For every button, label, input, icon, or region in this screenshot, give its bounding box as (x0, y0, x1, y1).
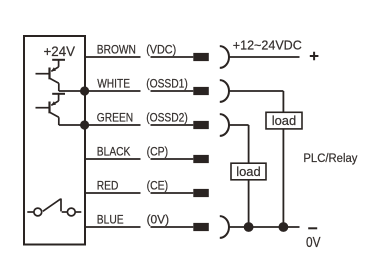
svg-text:(VDC): (VDC) (146, 43, 176, 57)
svg-text:RED: RED (97, 179, 119, 193)
svg-text:PLC/Relay: PLC/Relay (303, 151, 358, 165)
svg-text:BROWN: BROWN (97, 43, 136, 57)
svg-text:(0V): (0V) (147, 213, 170, 227)
svg-text:GREEN: GREEN (97, 111, 133, 125)
svg-text:load: load (236, 164, 261, 179)
svg-text:(CP): (CP) (147, 145, 169, 159)
svg-text:+24V: +24V (44, 44, 76, 60)
svg-text:BLACK: BLACK (97, 145, 131, 159)
svg-text:(CE): (CE) (147, 179, 169, 193)
svg-text:(OSSD1): (OSSD1) (146, 77, 188, 91)
svg-text:+12~24VDC: +12~24VDC (233, 37, 302, 52)
svg-text:(OSSD2): (OSSD2) (146, 111, 188, 125)
svg-text:load: load (272, 113, 297, 128)
svg-text:0V: 0V (306, 235, 321, 251)
svg-text:WHITE: WHITE (97, 77, 130, 91)
svg-text:BLUE: BLUE (97, 213, 124, 227)
